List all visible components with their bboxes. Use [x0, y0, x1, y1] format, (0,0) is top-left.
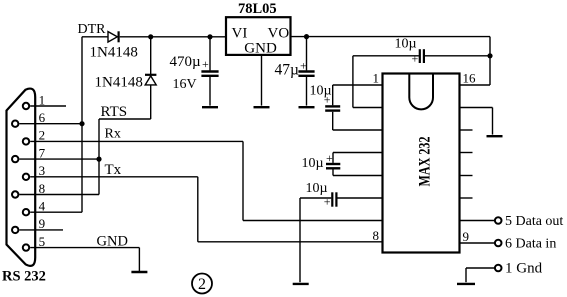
wire U2 pin14 stub	[460, 129, 473, 131]
IC U2 MAX232 body	[383, 74, 460, 253]
svg-text:RTS: RTS	[101, 104, 128, 120]
svg-text:+: +	[300, 59, 307, 73]
ground G4 C6	[299, 106, 315, 108]
wire U2 pin11 stub	[460, 197, 473, 199]
svg-text:8: 8	[39, 181, 46, 196]
ground G6 pin15	[487, 135, 503, 137]
wire gnd terminal	[466, 267, 494, 269]
regulator U1 78L05 box	[226, 17, 291, 55]
ground G7 output	[457, 283, 475, 285]
svg-text:7: 7	[39, 145, 46, 160]
J1 pin 6 circle	[12, 121, 18, 127]
capacitor C5 470u 16V	[209, 37, 211, 71]
ground G2 C5	[202, 106, 218, 108]
svg-text:GND: GND	[244, 40, 277, 56]
wire pin3 Tx horizontal	[30, 176, 198, 178]
svg-text:RS 232: RS 232	[2, 269, 46, 285]
svg-text:VO: VO	[268, 25, 290, 41]
wire pin8 stub	[19, 194, 99, 196]
connector J1 RS232 DB9 shell	[7, 89, 36, 266]
svg-text:470µ: 470µ	[170, 54, 202, 70]
wire pin5 GND horizontal	[30, 247, 139, 249]
wire Tx vertical	[197, 177, 199, 242]
wire pin7 RTS stub	[19, 158, 99, 160]
wire DTR vertical	[81, 37, 83, 212]
capacitor C2 10u pin4-pin5	[333, 152, 383, 154]
svg-text:+: +	[412, 51, 419, 65]
svg-text:6 Data in: 6 Data in	[505, 237, 556, 252]
capacitor C1 10u pin1-pin3	[333, 84, 383, 86]
svg-text:DTR: DTR	[78, 22, 107, 37]
svg-text:4: 4	[39, 199, 46, 214]
node RTS-pin7 junction	[96, 157, 101, 162]
capacitor C4 10u V- to ground	[338, 197, 383, 199]
terminal gnd	[495, 265, 502, 272]
svg-text:1 Gnd: 1 Gnd	[505, 261, 543, 277]
svg-text:1N4148: 1N4148	[90, 45, 138, 61]
wire RTS horizontal	[99, 118, 151, 120]
terminal data in	[495, 240, 502, 247]
svg-text:Rx: Rx	[105, 127, 121, 142]
svg-text:GND: GND	[97, 233, 128, 249]
ground G1 RS232	[131, 271, 147, 273]
wire RTS-CTS tie vertical	[98, 119, 100, 195]
capacitor C6 47u	[306, 37, 308, 71]
J1 pin 4 circle	[23, 209, 29, 215]
svg-text:16V: 16V	[173, 77, 197, 92]
U1 GND pin	[261, 55, 263, 106]
wire DTR rail to diode	[82, 36, 108, 38]
wire C4 ground vertical	[299, 198, 301, 282]
svg-text:VI: VI	[232, 25, 248, 41]
svg-text:16: 16	[463, 71, 477, 86]
IC U2 notch	[409, 75, 433, 110]
node rail-D2 junction	[148, 34, 153, 39]
svg-text:5 Data out: 5 Data out	[505, 214, 563, 229]
wire U2 pin10 data out	[460, 220, 495, 222]
wire U2 pin13 stub	[460, 152, 473, 154]
svg-text:10µ: 10µ	[302, 156, 324, 171]
wire Rx vertical	[242, 141, 244, 220]
svg-text:10µ: 10µ	[395, 37, 417, 52]
svg-text:+: +	[324, 194, 331, 208]
wire U2 pin12 stub	[460, 175, 473, 177]
wire pin1 stub	[30, 105, 66, 107]
J1 pin 1 circle	[23, 103, 29, 109]
node DTR-pin6 junction	[79, 121, 84, 126]
ground G3 78L05	[254, 106, 270, 108]
svg-text:47µ: 47µ	[275, 62, 300, 79]
node rail-C5 junction	[207, 34, 212, 39]
svg-text:1: 1	[373, 71, 380, 86]
capacitor C3 10u V+ to VCC	[353, 55, 419, 57]
J1 pin 9 circle	[12, 227, 18, 233]
svg-text:1N4148: 1N4148	[95, 75, 143, 91]
wire rail diode to 78L05 VI	[120, 36, 226, 38]
svg-text:MAX 232: MAX 232	[417, 137, 434, 187]
wire VCC vertical	[489, 37, 491, 85]
svg-text:5: 5	[39, 234, 46, 249]
svg-text:Tx: Tx	[105, 162, 122, 178]
svg-text:1: 1	[39, 92, 46, 107]
svg-text:78L05: 78L05	[238, 1, 277, 17]
svg-text:6: 6	[39, 110, 46, 125]
wire U2 pin16 stub	[460, 84, 491, 86]
wire V+ vertical	[352, 56, 354, 108]
svg-text:+: +	[326, 151, 333, 165]
wire GND vertical	[138, 248, 140, 271]
ground G5 C4	[293, 283, 309, 285]
wire pin9 stub	[19, 229, 63, 231]
wire pin2 Rx horizontal	[30, 140, 243, 142]
svg-text:2: 2	[198, 276, 206, 293]
wire pin6 to DTR node	[19, 123, 82, 125]
figure badge circle	[192, 274, 212, 294]
J1 pin 2 circle	[23, 138, 29, 144]
wire pin4 DTR stub	[30, 211, 82, 213]
terminal data out	[495, 217, 502, 224]
wire VO rail	[291, 36, 491, 38]
wire U2 pin15 to ground	[460, 107, 493, 109]
wire Tx to U2 pin8	[198, 241, 383, 243]
wire D2 to RTS	[150, 85, 152, 119]
wire U2 pin2 stub	[353, 107, 383, 109]
J1 pin 8 circle	[12, 191, 18, 197]
svg-text:2: 2	[39, 128, 46, 143]
node VO-C6 junction	[304, 34, 309, 39]
svg-text:8: 8	[373, 228, 380, 243]
svg-text:3: 3	[39, 163, 46, 178]
wire Rx to U2 pin7	[243, 220, 383, 222]
diode D1 1N4148	[108, 32, 117, 42]
wire U2 pin9 data in	[460, 242, 495, 244]
svg-text:9: 9	[463, 229, 470, 244]
svg-text:+: +	[324, 92, 331, 106]
J1 pin 5 circle	[23, 244, 29, 250]
diode D2 1N4148 vertical	[150, 37, 152, 74]
J1 pin 7 circle	[12, 156, 18, 162]
J1 pin 3 circle	[23, 174, 29, 180]
node C3-VCC junction	[487, 53, 492, 58]
svg-text:+: +	[202, 57, 209, 71]
svg-text:9: 9	[39, 216, 46, 231]
